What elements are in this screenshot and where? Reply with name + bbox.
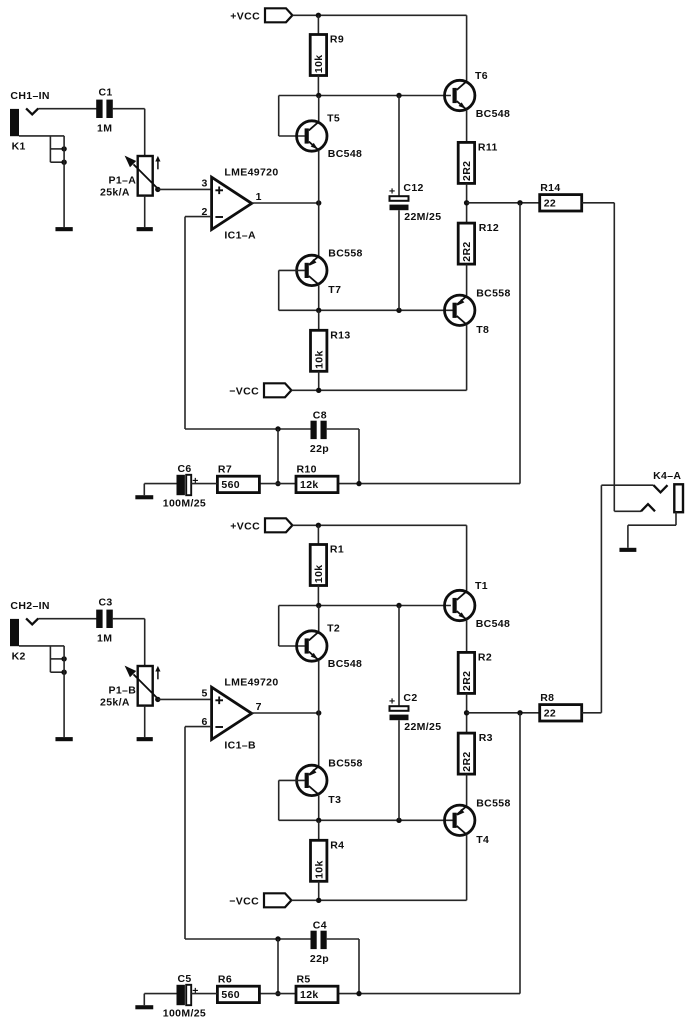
wire R4 to -VCC (318, 881, 320, 900)
svg-text:10k: 10k (313, 350, 325, 369)
svg-text:1M: 1M (97, 632, 112, 644)
capacitor C8 (22p) (310, 409, 329, 455)
svg-text:R6: R6 (218, 973, 232, 985)
junction pot wiper (155, 697, 160, 702)
svg-text:CH2–IN: CH2–IN (10, 600, 49, 612)
junction +VCC (316, 13, 321, 18)
wire op-amp output (252, 202, 319, 204)
junction +VCC (316, 523, 321, 528)
svg-text:+: + (192, 475, 198, 487)
wire +VCC to R1 (317, 525, 319, 544)
wire T1 collector to +VCC (466, 525, 468, 591)
junction lower bias rail left (316, 818, 321, 823)
svg-text:R3: R3 (479, 732, 493, 744)
junction op-amp output (316, 200, 321, 205)
wire output node to R8 (467, 712, 540, 714)
wire input to C3 (38, 618, 97, 620)
svg-text:T7: T7 (328, 284, 341, 296)
wire R13 to -VCC (318, 371, 320, 390)
wire R8 to jack ring contact (582, 712, 602, 714)
junction C4 left rail (275, 936, 280, 941)
svg-text:+: + (389, 186, 395, 198)
svg-text:10k: 10k (313, 565, 325, 584)
svg-text:R2: R2 (478, 651, 492, 663)
wire C6 to R7 (191, 483, 217, 485)
wire feedback tap down (519, 713, 521, 994)
wire T7 upper (318, 203, 320, 256)
svg-text:560: 560 (221, 989, 240, 1001)
wire feedback lower rail (338, 483, 520, 485)
svg-text:22M/25: 22M/25 (404, 721, 441, 733)
svg-text:R7: R7 (218, 463, 232, 475)
wire T5 collector (318, 96, 320, 122)
svg-text:BC548: BC548 (328, 148, 362, 160)
svg-text:C1: C1 (99, 87, 113, 99)
wire C5 to ground (144, 993, 176, 995)
resistor R2 (2R2) (458, 651, 492, 693)
junction output node (464, 200, 469, 205)
junction C8 right rail (356, 481, 361, 486)
op-amp IC1–A (LME49720) (201, 167, 278, 242)
svg-text:IC1–B: IC1–B (224, 739, 256, 751)
junction lower bias rail C (396, 818, 401, 823)
svg-text:BC548: BC548 (476, 618, 510, 630)
resistor R4 (10k) (311, 839, 345, 881)
svg-text:+: + (192, 985, 198, 997)
transistor T5 (BC548 NPN) (297, 112, 363, 160)
svg-text:+VCC: +VCC (230, 10, 260, 22)
wire C5 to R6 (191, 993, 217, 995)
transistor T1 (BC548 NPN) (445, 580, 511, 630)
svg-text:BC558: BC558 (476, 798, 510, 810)
junction feedback tap (517, 710, 522, 715)
svg-text:5: 5 (201, 687, 207, 699)
wire input to C1 (38, 108, 97, 110)
resistor R3 (2R2) (458, 732, 493, 774)
svg-text:1: 1 (256, 191, 262, 203)
junction lower bias rail C (396, 308, 401, 313)
capacitor C4 (22p) (310, 919, 329, 965)
svg-text:3: 3 (201, 177, 207, 189)
transistor T6 (BC548 NPN) (445, 70, 511, 120)
wire R3 to T4 (466, 774, 468, 806)
wire op-amp - input feedback (185, 216, 212, 218)
junction C4 right rail (356, 991, 361, 996)
wire C2 upper (398, 606, 400, 707)
junction R6-R5 (275, 991, 280, 996)
wire C6 to ground (144, 483, 176, 485)
svg-text:K4–A: K4–A (653, 470, 681, 482)
svg-text:P1–B: P1–B (109, 684, 137, 696)
junction -VCC (316, 388, 321, 393)
svg-text:T1: T1 (475, 580, 488, 592)
svg-text:CH1–IN: CH1–IN (10, 90, 49, 102)
wire R6 to R5 (258, 993, 296, 995)
junction upper bias rail C (396, 93, 401, 98)
svg-text:2R2: 2R2 (461, 241, 473, 261)
svg-text:2R2: 2R2 (461, 751, 473, 771)
input jack K1 (10, 108, 38, 152)
junction output node (464, 710, 469, 715)
svg-text:R9: R9 (330, 34, 344, 46)
power flag −VCC (229, 893, 291, 907)
svg-text:T6: T6 (475, 70, 488, 82)
jack switch contacts (50, 136, 66, 165)
ground (jack K4-A) (619, 548, 636, 552)
svg-text:R12: R12 (479, 222, 499, 234)
svg-text:560: 560 (221, 479, 240, 491)
resistor R5 (12k) (296, 973, 338, 1002)
svg-text:100M/25: 100M/25 (163, 498, 206, 510)
junction pot wiper (155, 187, 160, 192)
svg-text:−VCC: −VCC (229, 895, 259, 907)
ground (jack) (55, 227, 72, 231)
wire pot to ground (144, 706, 146, 738)
junction op-amp output (316, 710, 321, 715)
svg-text:R13: R13 (330, 329, 350, 341)
svg-text:BC558: BC558 (328, 757, 362, 769)
op-amp IC1–B (LME49720) (201, 677, 278, 752)
transistor T8 (BC558 PNP) (445, 295, 475, 325)
wire jack sleeve branch (19, 135, 64, 137)
resistor R10 (12k) (296, 463, 338, 492)
ground (pot) (137, 227, 153, 231)
svg-text:2R2: 2R2 (461, 161, 473, 181)
wire R9 to bias rail (317, 76, 319, 96)
svg-text:T4: T4 (476, 834, 489, 846)
svg-text:R5: R5 (297, 973, 311, 985)
svg-text:R8: R8 (540, 692, 554, 704)
junction feedback tap (517, 200, 522, 205)
wire lower rail to R13 (318, 310, 320, 330)
svg-text:LME49720: LME49720 (224, 677, 278, 689)
resistor R1 (10k) (310, 544, 344, 586)
capacitor C3 (1M) (96, 597, 113, 645)
svg-text:22p: 22p (310, 953, 329, 965)
resistor R7 (560) (217, 463, 259, 492)
ground (pot) (137, 737, 153, 741)
wire pot to ground (144, 196, 146, 228)
wire R11 to R12 (466, 183, 468, 223)
wire op-amp - input feedback (185, 726, 212, 728)
junction -VCC (316, 898, 321, 903)
wire -VCC rail (291, 389, 466, 391)
transistor T2 (BC548 NPN) (297, 622, 363, 670)
wire T2 collector (318, 606, 320, 632)
svg-text:−VCC: −VCC (229, 385, 259, 397)
svg-text:IC1–A: IC1–A (224, 229, 256, 241)
wire R2 to R3 (466, 693, 468, 733)
svg-text:2R2: 2R2 (461, 671, 473, 691)
svg-text:T5: T5 (327, 112, 340, 124)
svg-text:12k: 12k (300, 989, 319, 1001)
wire C3 to pot (112, 618, 145, 620)
svg-text:22: 22 (544, 708, 556, 720)
wire R12 to T8 (466, 264, 468, 296)
ground (C5) (135, 1005, 153, 1009)
wire jack sleeve branch (19, 645, 64, 647)
svg-text:C8: C8 (313, 409, 327, 421)
resistor R11 (2R2) (458, 141, 497, 183)
resistor R13 (10k) (311, 329, 351, 371)
potentiometer P1–B (25k/A) (100, 666, 161, 709)
jack switch contacts (50, 646, 66, 675)
wire R7 to R10 (258, 483, 296, 485)
wire C4 right (327, 938, 359, 940)
svg-text:C5: C5 (178, 973, 192, 985)
svg-text:T8: T8 (476, 324, 489, 336)
svg-text:25k/A: 25k/A (100, 697, 130, 709)
svg-text:R4: R4 (330, 839, 344, 851)
wire T6 emitter (466, 110, 468, 143)
junction upper bias rail C (396, 603, 401, 608)
power flag +VCC (230, 8, 292, 22)
svg-text:K1: K1 (12, 141, 26, 153)
svg-text:+: + (389, 696, 395, 708)
capacitor C6 (100M/25 electrolytic) (163, 463, 206, 510)
junction lower bias rail left (316, 308, 321, 313)
transistor T4 (BC558 PNP) (445, 805, 475, 835)
wire wiper to op-amp + (158, 698, 212, 700)
potentiometer P1–A (25k/A) (100, 156, 161, 199)
wire lower bias rail (279, 819, 453, 821)
svg-text:22: 22 (544, 198, 556, 210)
wire C12 upper (398, 96, 400, 197)
junction C8 left rail (275, 426, 280, 431)
wire T2 emitter to output node (318, 660, 320, 713)
wire +VCC to R9 (317, 15, 319, 34)
svg-text:P1–A: P1–A (109, 174, 137, 186)
junction upper bias rail left (316, 93, 321, 98)
svg-text:LME49720: LME49720 (224, 167, 278, 179)
wire -VCC rail (291, 899, 466, 901)
svg-text:1M: 1M (97, 122, 112, 134)
output jack K4-A (641, 470, 683, 512)
wire +VCC rail (292, 524, 466, 526)
wire C8 left (185, 428, 311, 430)
wire T3 upper (318, 713, 320, 766)
wire T6 collector to +VCC (466, 15, 468, 81)
wire parallel strap (277, 429, 279, 484)
svg-text:C2: C2 (403, 692, 417, 704)
svg-text:BC548: BC548 (328, 658, 362, 670)
svg-text:100M/25: 100M/25 (163, 1008, 206, 1020)
wire T7 base strap (279, 269, 305, 271)
svg-text:R14: R14 (540, 182, 560, 194)
wire +VCC rail (292, 14, 466, 16)
svg-text:T2: T2 (327, 622, 340, 634)
wire jack to ground (63, 136, 65, 227)
junction upper bias rail left (316, 603, 321, 608)
wire T5 base strap (278, 96, 280, 137)
wire R14 to jack tip contact (582, 202, 615, 204)
wire lower rail to R4 (318, 820, 320, 840)
transistor T3 (BC558 PNP) (297, 765, 327, 795)
transistor T7 (BC558 PNP) (297, 255, 327, 285)
resistor R6 (560) (217, 973, 259, 1002)
svg-text:C4: C4 (313, 919, 327, 931)
capacitor C5 (100M/25 electrolytic) (163, 973, 206, 1020)
svg-text:R11: R11 (478, 141, 498, 153)
wire C8 right (327, 428, 359, 430)
svg-text:C6: C6 (178, 463, 192, 475)
resistor R14 (22) (540, 182, 582, 211)
svg-text:R10: R10 (297, 463, 317, 475)
wire T4 to -VCC (466, 835, 468, 901)
svg-text:R1: R1 (330, 544, 344, 556)
ground (jack) (55, 737, 72, 741)
power flag +VCC (230, 518, 292, 532)
wire upper bias rail (279, 605, 451, 607)
svg-text:25k/A: 25k/A (100, 187, 130, 199)
wire wiper to op-amp + (158, 188, 212, 190)
wire feedback tap down (519, 203, 521, 484)
wire jack sleeve to ground (675, 512, 677, 525)
input jack K2 (10, 618, 38, 662)
wire C12 lower (398, 210, 400, 310)
svg-text:BC558: BC558 (328, 247, 362, 259)
ground (C6) (135, 495, 153, 499)
svg-text:22p: 22p (310, 443, 329, 455)
resistor R9 (10k) (310, 34, 344, 76)
svg-text:7: 7 (256, 701, 262, 713)
wire C4 left (185, 938, 311, 940)
wire T5 emitter to output node (318, 150, 320, 203)
svg-text:10k: 10k (313, 55, 325, 74)
svg-text:12k: 12k (300, 479, 319, 491)
svg-text:T3: T3 (328, 794, 341, 806)
junction R7-R10 (275, 481, 280, 486)
wire C1 to pot (112, 108, 145, 110)
wire parallel strap (277, 939, 279, 994)
svg-text:K2: K2 (12, 651, 26, 663)
wire jack to ground (63, 646, 65, 737)
wire T3 base strap (279, 779, 305, 781)
svg-text:10k: 10k (313, 860, 325, 879)
wire T1 emitter (466, 620, 468, 653)
wire R1 to bias rail (317, 586, 319, 606)
svg-text:+VCC: +VCC (230, 520, 260, 532)
wire C2 lower (398, 720, 400, 820)
svg-text:22M/25: 22M/25 (404, 211, 441, 223)
svg-text:C12: C12 (403, 182, 423, 194)
wire T8 to -VCC (466, 325, 468, 391)
capacitor C2 (22M/25 electrolytic) (389, 692, 441, 733)
svg-text:BC558: BC558 (476, 288, 510, 300)
power flag −VCC (229, 383, 291, 397)
resistor R12 (2R2) (458, 222, 499, 264)
wire upper bias rail (279, 95, 451, 97)
wire lower bias rail (279, 309, 453, 311)
capacitor C1 (1M) (96, 87, 113, 135)
svg-text:BC548: BC548 (476, 108, 510, 120)
wire T3 lower (318, 795, 320, 821)
wire feedback lower rail (338, 993, 520, 995)
svg-text:C3: C3 (99, 597, 113, 609)
wire output node to R14 (467, 202, 540, 204)
wire T2 base strap (278, 606, 280, 647)
resistor R8 (22) (540, 692, 582, 721)
wire T7 lower (318, 285, 320, 311)
capacitor C12 (22M/25 electrolytic) (389, 182, 441, 223)
wire op-amp output (252, 712, 319, 714)
